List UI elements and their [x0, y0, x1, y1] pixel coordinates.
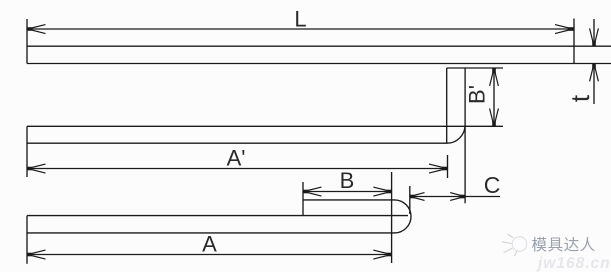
thickness t lower arrow line — [593, 64, 595, 105]
svg-text:A': A' — [227, 145, 246, 170]
C left arrow tip blob — [410, 195, 415, 199]
thickness t upper arrow line — [593, 19, 595, 46]
dimension A right arrowhead — [373, 250, 391, 259]
A' right arrow tip blob — [442, 167, 447, 171]
dimension B line — [303, 191, 392, 193]
dimension B' line — [493, 68, 495, 126]
dimension A left arrowhead — [28, 250, 46, 259]
dimension A line — [27, 254, 392, 256]
A right arrow tip blob — [387, 253, 392, 257]
dimension A' left arrowhead — [28, 164, 46, 173]
bend outer radius — [447, 125, 465, 143]
bend tangent extension — [391, 172, 393, 263]
flange top edge — [447, 67, 503, 69]
svg-text:jw168.cn: jw168.cn — [536, 255, 611, 272]
hem end cap — [395, 200, 412, 233]
dimension B right arrowhead — [373, 187, 391, 196]
hem interface line — [27, 215, 408, 217]
flat strip top edge — [27, 45, 611, 47]
B' bottom arrow tip blob — [492, 121, 496, 126]
dimension C line — [410, 196, 500, 198]
t upper arrow tip blob — [592, 41, 596, 46]
hem strip left end — [26, 216, 28, 264]
dimension B' top arrowhead — [490, 68, 499, 86]
svg-text:L: L — [294, 6, 306, 31]
dimension B' bottom arrowhead — [490, 109, 499, 127]
thickness t upper arrowhead — [590, 28, 599, 46]
dimension C left extension — [409, 186, 411, 214]
bent strip bottom surface — [27, 142, 447, 144]
t lower arrow tip blob — [592, 64, 596, 69]
dimension L right extension line — [573, 19, 575, 64]
B right arrow tip blob — [387, 190, 392, 194]
svg-text:A: A — [202, 232, 217, 257]
A left arrow tip blob — [27, 253, 32, 257]
dimension A' line — [27, 168, 447, 170]
bent strip left end — [26, 126, 28, 177]
A' left arrow tip blob — [27, 167, 32, 171]
B' top arrow tip blob — [492, 68, 496, 73]
flange outer face — [464, 68, 466, 203]
dimension L left arrowhead — [28, 25, 46, 34]
L right arrow tip blob — [569, 27, 574, 31]
dimension C right arrowhead — [450, 193, 465, 201]
svg-text:B: B — [340, 168, 355, 193]
hem flap top edge — [303, 199, 395, 201]
bent strip top surface — [27, 125, 503, 127]
flat strip bottom edge — [27, 63, 611, 65]
L left arrow tip blob — [27, 27, 32, 31]
hem flap left end and B extension — [302, 182, 304, 216]
dimension A' right arrowhead — [429, 164, 447, 173]
svg-text:B': B' — [465, 85, 490, 104]
svg-text:模具达人: 模具达人 — [532, 236, 596, 254]
hem strip bottom edge — [27, 232, 395, 234]
dimension A' right extension — [447, 155, 449, 178]
flat strip left end — [26, 19, 28, 64]
C right arrow tip blob — [460, 195, 465, 199]
flange inner face — [446, 68, 448, 143]
B left arrow tip blob — [303, 190, 308, 194]
svg-text:t: t — [565, 94, 595, 102]
dimension B left arrowhead — [304, 187, 322, 196]
dimension L line — [27, 28, 573, 30]
svg-text:C: C — [484, 172, 501, 198]
thickness t lower arrowhead — [590, 64, 599, 82]
dimension C left arrowhead — [410, 193, 425, 201]
dimension L right arrowhead — [555, 25, 573, 34]
watermark icon — [502, 234, 527, 256]
